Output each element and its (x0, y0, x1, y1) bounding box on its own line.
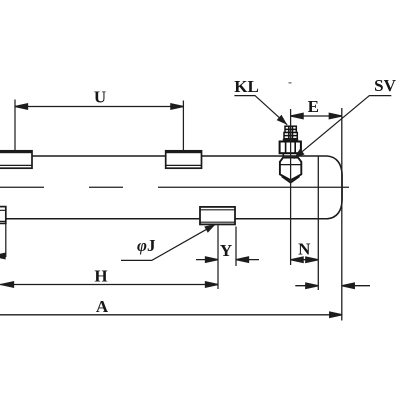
dimension N line (291, 257, 319, 262)
KL text (234, 77, 259, 96)
dimension Y line (arrows outside) (196, 257, 259, 262)
SV text (374, 76, 396, 95)
label E (308, 97, 319, 116)
label N (298, 240, 311, 259)
svg-text:KL: KL (234, 77, 259, 96)
left port small dimension arrow (0, 253, 6, 258)
svg-text:A: A (96, 297, 109, 316)
stray printing dot (289, 82, 292, 84)
left port edge extension (5, 223, 7, 257)
port phi-J right edge extension (235, 227, 237, 267)
dimension U line (15, 104, 183, 109)
label Y (220, 241, 232, 260)
mounting foot middle (166, 151, 202, 169)
svg-text:U: U (94, 88, 106, 107)
label U (94, 88, 106, 107)
mounting foot left (0, 151, 32, 169)
label KL with leader (234, 96, 287, 125)
label SV with leader (294, 96, 392, 159)
shell top line (32, 155, 327, 157)
dimension A line (0, 312, 342, 317)
KL leader arrowhead (277, 115, 290, 128)
valve collar band (283, 139, 298, 142)
dimension H line (0, 282, 218, 287)
dimension E line (291, 113, 342, 118)
svg-text:φJ: φJ (137, 236, 156, 255)
phi-J leader arrowhead (204, 221, 217, 233)
hex plug SV (below shell line) (280, 158, 301, 183)
svg-text:E: E (308, 97, 319, 116)
valve centerline (extension to N) (290, 109, 292, 265)
shell right end cap (327, 156, 342, 219)
label H (94, 267, 107, 286)
centerline (dashed axis) (0, 186, 349, 188)
end cap dimension (arrows outside, unlabeled) (295, 283, 370, 288)
oil port left (cut off at edge) (0, 207, 6, 224)
svg-text:N: N (298, 240, 311, 259)
U dimension extension line right (182, 101, 184, 151)
svg-text:Y: Y (220, 241, 232, 260)
valve hex nut (280, 142, 301, 156)
valve KL ribbed cap lower (284, 133, 297, 139)
right end extension line (341, 108, 343, 321)
svg-text:SV: SV (374, 76, 396, 95)
label phi-J with leader (121, 224, 216, 260)
SV leader arrowhead (291, 149, 304, 162)
valve KL ribbed cap upper (285, 126, 296, 132)
weld line / tube sheet (317, 156, 319, 290)
shell bottom line (6, 218, 327, 220)
port phi-J centerline extension (217, 224, 219, 289)
svg-text:H: H (94, 267, 107, 286)
label A (96, 297, 109, 316)
U dimension extension line left (14, 100, 16, 151)
oil port phi-J (200, 207, 235, 225)
phi-J text (137, 236, 156, 255)
